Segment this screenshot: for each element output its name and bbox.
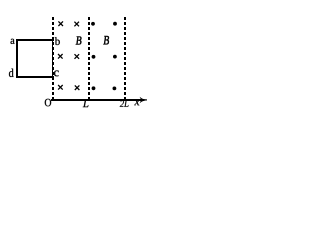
field-out-of-page dot row2 col1 <box>92 55 96 59</box>
arrow tip stub <box>144 99 147 101</box>
field-out-of-page dot row2 col2 <box>113 55 117 59</box>
loop side bc (right, on the dashed line) <box>52 39 54 78</box>
label c <box>54 70 59 76</box>
field-into-page cross row3 col2 <box>75 85 80 90</box>
label L <box>83 100 89 107</box>
label x <box>134 100 139 105</box>
field-into-page cross row2 col1 <box>58 54 63 59</box>
label 2L <box>120 100 129 106</box>
label a <box>11 39 15 44</box>
label B region 1 <box>76 36 82 44</box>
loop side ab (top) <box>16 39 54 41</box>
field-into-page cross row2 col2 <box>75 54 80 59</box>
x axis arrowhead <box>140 97 145 103</box>
loop side dc (bottom) <box>16 76 54 78</box>
dashed field-boundary line at x=2L <box>124 17 126 100</box>
label b <box>55 37 60 45</box>
field-out-of-page dot row3 col1 <box>92 86 96 90</box>
field-into-page cross row3 col1 <box>58 85 63 90</box>
field-into-page cross row1 col2 <box>74 22 79 27</box>
field-out-of-page dot row1 col2 <box>113 22 117 26</box>
field-into-page cross row1 col1 <box>58 21 63 26</box>
dashed field-boundary line at x=L <box>88 17 90 100</box>
conducting loop abcd: side da (left) <box>16 39 18 78</box>
label B region 2 <box>103 36 109 44</box>
field-out-of-page dot row3 col2 <box>113 87 117 91</box>
x axis line <box>51 99 145 101</box>
field-out-of-page dot row1 col1 <box>91 22 95 26</box>
origin label O <box>45 99 51 106</box>
dashed field-boundary line at x=0 through origin O <box>52 17 54 100</box>
label d <box>9 69 14 77</box>
